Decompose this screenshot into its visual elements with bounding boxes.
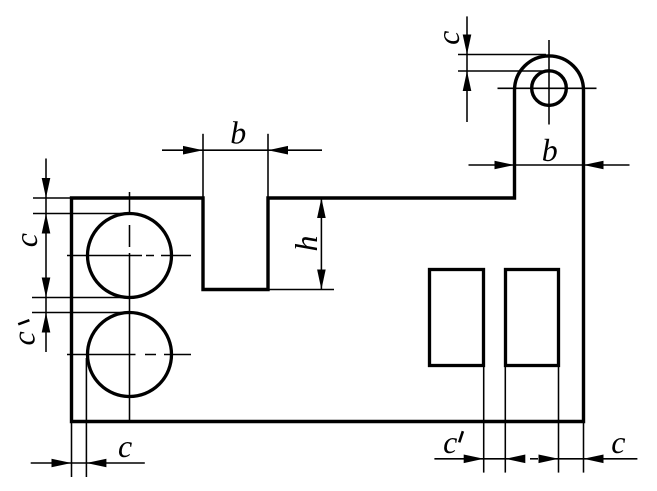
dimension line c bottom right [541, 458, 638, 460]
svg-text:b: b [230, 115, 246, 151]
svg-text:c: c [118, 428, 132, 464]
arrow down to body top edge [42, 178, 51, 198]
dimension line vertical left [45, 159, 47, 353]
extension line body right edge down [583, 422, 585, 473]
dimension line bottom left [31, 462, 145, 464]
center line vertical small hole [548, 40, 550, 125]
dimension c top right: extension line at arc top [458, 54, 546, 56]
dimension c' left: extension line at lower hole top tangent [32, 312, 123, 314]
center line horizontal hole left bottom [67, 354, 191, 356]
dimension h: line with arrows [320, 198, 322, 290]
arrow up to hole top tangent [42, 214, 51, 234]
extension line rect1 right edge down [483, 365, 485, 472]
hole circle left bottom [88, 313, 172, 397]
arrow right to rect1 right edge [464, 455, 484, 464]
rectangular cutout right [506, 270, 559, 366]
arrow left at rect2 left edge [505, 455, 525, 464]
dimension c' left: extension line at hole bottom tangent [32, 297, 133, 299]
dimension line c' bottom right [434, 458, 524, 460]
dimension c left: extension line at hole top tangent [33, 213, 126, 215]
arrow up to small hole top [463, 71, 472, 91]
body outline [72, 56, 584, 422]
arrow down to hole bottom tangent [42, 278, 51, 298]
arrow left to hole tangent line [86, 459, 106, 468]
dimension c bottom left: extension of body left edge [71, 422, 73, 478]
center line vertical through left holes [129, 192, 131, 422]
svg-text:c: c [6, 331, 42, 345]
center line horizontal hole left top [67, 255, 191, 257]
dimension c left: extension line at body top edge [33, 197, 70, 199]
extension line rect2 left edge down [504, 365, 506, 472]
arrow right to slot left edge [183, 146, 203, 155]
extension line slot bottom [268, 289, 334, 291]
rectangular cutout left [430, 270, 484, 366]
arrow right to tab left edge [495, 161, 515, 170]
arrow right at rect2 right edge [539, 455, 559, 464]
svg-text:b: b [542, 132, 558, 168]
svg-text:h: h [288, 236, 324, 252]
dimension b top middle: extension line left [202, 134, 204, 197]
arrow down to slot bottom [317, 270, 326, 290]
arrow left to body right edge [584, 455, 604, 464]
svg-text:c: c [443, 424, 457, 460]
dimension c bottom left: extension line at hole left tangent [85, 358, 87, 477]
svg-text:c: c [430, 31, 466, 45]
svg-text:c: c [611, 424, 625, 460]
hole circle left top [88, 214, 172, 298]
center line horizontal small hole [498, 87, 597, 89]
arrow down to arc top [463, 35, 472, 55]
dimension b top middle: extension line right [267, 134, 269, 197]
dimension line b top middle [162, 149, 322, 151]
dimension line middle dash [530, 458, 538, 460]
arrow up to top edge [317, 198, 326, 218]
dimension line vertical top right [466, 16, 468, 122]
small hole circle top right [532, 71, 567, 106]
svg-text:c: c [8, 233, 44, 247]
arrow right to body left edge [52, 459, 72, 468]
arrow left to slot right edge [268, 146, 288, 155]
dimension line b top right [469, 164, 630, 166]
dimension c top right: extension line at small hole top [458, 70, 543, 72]
arrow left to tab right edge [584, 161, 604, 170]
prime mark of c' left [18, 320, 29, 324]
arrow up to lower hole top tangent [42, 313, 51, 333]
extension line rect2 right edge down [558, 365, 560, 472]
prime mark of c' bottom right [459, 431, 463, 442]
